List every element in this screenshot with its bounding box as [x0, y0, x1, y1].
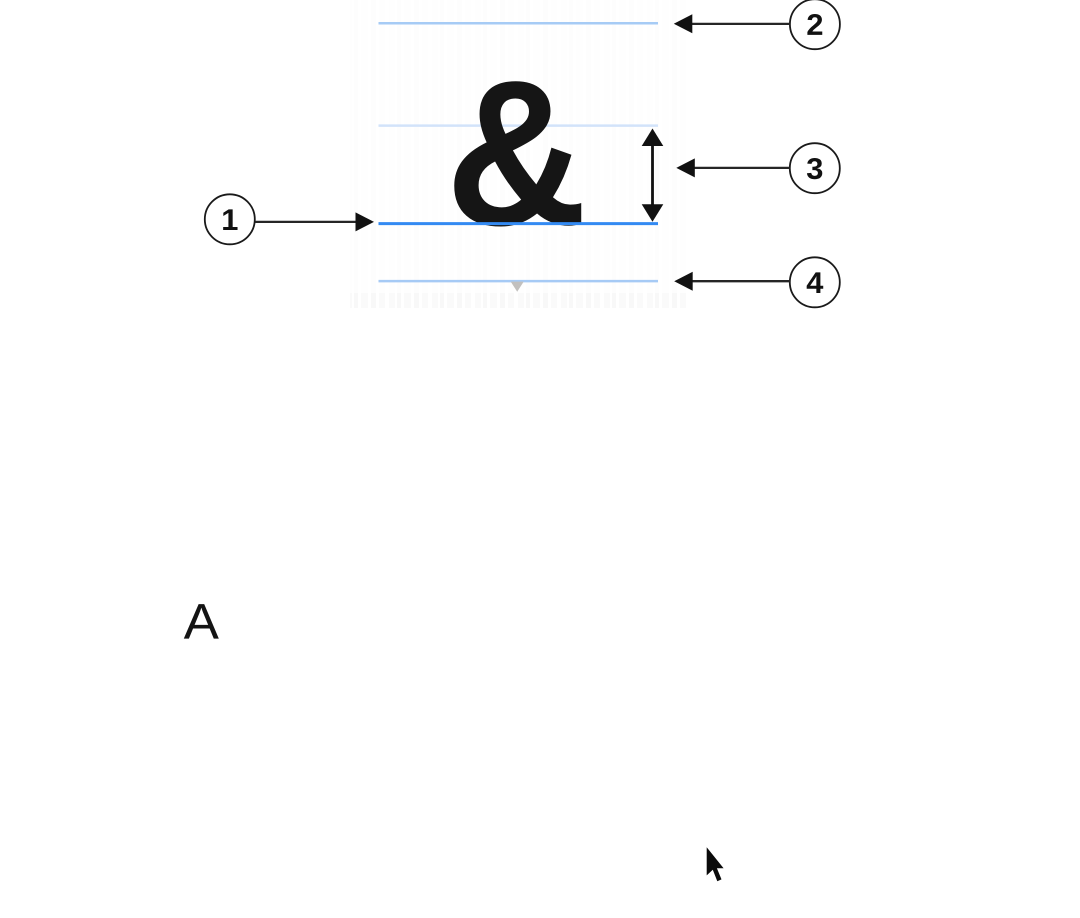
letter A specimen	[184, 604, 219, 638]
descender marker triangle	[511, 282, 524, 292]
panel bottom edge band	[350, 293, 690, 308]
callout arrow 1	[256, 212, 375, 231]
callout circle 1	[205, 194, 255, 244]
callout arrow 3	[676, 158, 789, 177]
screenshot panel background	[350, 0, 690, 308]
baseline guide line	[379, 222, 659, 225]
callout arrow 4	[674, 272, 790, 291]
callout circle 4	[790, 257, 840, 307]
ampersand glyph	[454, 81, 581, 226]
callout arrow 2	[674, 14, 790, 33]
cap-height guide line	[379, 22, 659, 25]
callout circle 3	[790, 143, 840, 193]
mouse cursor	[707, 847, 724, 881]
descender guide line	[379, 280, 659, 283]
x-height guide line	[379, 124, 659, 127]
callout circle 2	[790, 0, 840, 49]
x-height measure double arrow	[642, 129, 664, 222]
